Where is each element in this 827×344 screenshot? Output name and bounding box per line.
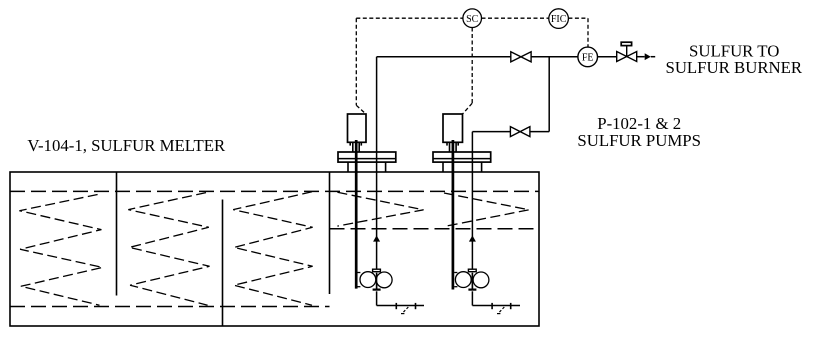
signal line FIC to FE (dashed) (568, 18, 588, 47)
baffle divider 3 (329, 172, 331, 294)
svg-text:FE: FE (582, 52, 594, 63)
block valve on header (511, 52, 531, 62)
pump 1 drain line (377, 303, 424, 314)
pump P-102-2 discharge riser (471, 132, 473, 306)
flow element FE (578, 47, 598, 67)
motor M2 box (443, 114, 463, 142)
heating coil 4 (chevron pump bay) (337, 192, 423, 226)
label V-104-1 SULFUR MELTER (27, 136, 226, 155)
svg-text:SC: SC (466, 14, 479, 25)
motor M2 neck (447, 142, 458, 152)
level line (dashed) pump bay (330, 228, 540, 230)
heating coil 5 (chevron pump bay) (444, 193, 529, 227)
svg-text:SULFUR BURNER: SULFUR BURNER (665, 58, 802, 77)
flow arrow to burner (645, 53, 656, 60)
mounting flange 1 (338, 152, 396, 172)
heating coil 3 (zigzag) (233, 192, 312, 305)
svg-text:FIC: FIC (551, 14, 567, 25)
motor M1 neck (350, 142, 361, 152)
block valve on pump 2 branch (510, 127, 530, 137)
level line (dashed) top (10, 190, 539, 192)
svg-text:SULFUR PUMPS: SULFUR PUMPS (577, 131, 701, 150)
label SULFUR TO (689, 41, 779, 60)
flow controller FIC (549, 9, 569, 29)
pump P-102-1 casing (357, 269, 392, 289)
flow arrow up riser 2 (469, 235, 476, 241)
signal line SC to motors (dashed) (356, 18, 472, 114)
heating coil 1 (zigzag) (19, 195, 102, 306)
flow arrow up riser 1 (373, 235, 380, 241)
speed controller SC (463, 9, 482, 28)
pump 2 drain line (472, 303, 520, 314)
baffle divider 2 (222, 200, 224, 327)
pump 2 discharge branch pipe (472, 57, 549, 132)
signal line SC to FIC (dashed) (482, 17, 549, 19)
label SULFUR PUMPS (577, 131, 701, 150)
baffle divider 1 (116, 172, 118, 296)
svg-text:V-104-1, SULFUR MELTER: V-104-1, SULFUR MELTER (27, 136, 226, 155)
heating coil 2 (zigzag) (128, 193, 209, 306)
agitator shaft 1 (355, 140, 358, 289)
level line (dashed) bottom left (10, 306, 330, 308)
motor M1 box (348, 114, 367, 142)
agitator shaft 2 (452, 140, 455, 290)
pump P-102-1 discharge riser (376, 57, 378, 306)
tank V-104-1 outline (10, 172, 539, 326)
mounting flange 2 (433, 152, 491, 172)
control valve with actuator (617, 42, 637, 61)
label P-102-1 and 2 (597, 114, 681, 133)
label SULFUR BURNER (665, 58, 802, 77)
main discharge header pipe (377, 56, 645, 58)
pump P-102-2 casing (454, 269, 489, 289)
